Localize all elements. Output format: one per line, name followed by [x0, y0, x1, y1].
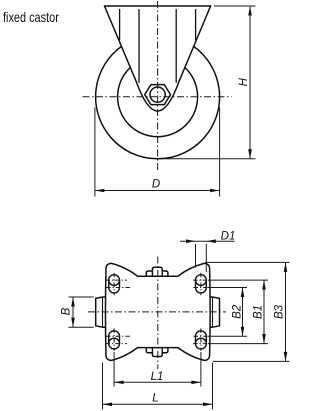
fork left slant: [105, 6, 136, 81]
hole TL horizontal crosshairs: [106, 280, 131, 287]
hole TR vertical crosshair: [200, 273, 202, 296]
wheel left shoulder: [102, 297, 104, 327]
axle circle: [150, 87, 165, 102]
B3 bottom extension line: [213, 360, 290, 362]
D1 right arrow (outside): [206, 239, 216, 243]
H top arrow: [248, 6, 252, 16]
B bottom extension line: [69, 326, 94, 328]
L1 dimension line: [114, 381, 201, 383]
svg-text:B2: B2: [232, 304, 244, 319]
H top extension line: [214, 5, 256, 7]
B3 bottom arrow: [284, 352, 288, 362]
B2 top arrow: [241, 288, 245, 298]
L right extension line: [212, 363, 214, 410]
H bottom extension line: [158, 158, 256, 160]
plan horizontal centerline: [88, 311, 226, 313]
D1 right extension line: [205, 244, 207, 272]
L left arrow: [103, 403, 113, 407]
svg-text:L: L: [152, 393, 158, 405]
L1 right arrow: [191, 381, 201, 385]
svg-text:H: H: [238, 77, 250, 86]
D right extension line: [219, 108, 221, 197]
axle hex nut: [145, 85, 171, 105]
svg-text:D1: D1: [221, 230, 236, 242]
svg-text:B3: B3: [273, 304, 285, 319]
B2 bottom extension line: [208, 335, 247, 337]
B1 bottom arrow: [262, 334, 266, 344]
B1 top extension line (from hole centers): [208, 279, 268, 281]
D1 left extension line: [195, 244, 197, 268]
side view vertical centerline: [157, 1, 159, 172]
hole BR vertical crosshair: [200, 328, 202, 351]
fork leg edge line 2: [138, 10, 140, 83]
wheel bottom line (plan): [103, 326, 213, 328]
bolt hole bottom-right slot: [196, 331, 207, 344]
L1 left extension line: [113, 352, 115, 387]
wheel right end face: [213, 297, 220, 327]
svg-text:B1: B1: [253, 305, 265, 319]
side view horizontal centerline: [83, 96, 232, 98]
bolt hole top-left slot: [109, 280, 120, 293]
wheel hub circle (arc): [118, 68, 198, 137]
plate edge line across bottom tab: [146, 347, 168, 349]
hole BL vertical crosshair: [113, 328, 115, 351]
B dimension line: [72, 297, 74, 327]
fork leg edge line 3: [175, 10, 177, 83]
hole TL vertical crosshair: [113, 273, 115, 296]
H bottom arrow: [248, 149, 252, 159]
plate tab inner lines top: [152, 271, 162, 276]
plate tab inner lines bottom: [152, 348, 162, 353]
D right arrow: [210, 189, 220, 193]
B2 dimension line: [242, 288, 244, 337]
D left extension line: [94, 108, 96, 197]
plate edge line across top tab: [146, 275, 168, 277]
B top arrow: [71, 297, 75, 307]
D dimension line: [95, 190, 220, 192]
bolt hole bottom-right circle: [196, 338, 207, 349]
fork yoke U-curve: [136, 81, 180, 112]
plate outline: [105, 263, 210, 360]
fork right slant: [179, 6, 210, 81]
fork leg edge line 4: [195, 10, 197, 40]
bolt hole top-right slot: [196, 280, 207, 293]
bolt hole bottom-left circle: [109, 338, 120, 349]
hole TR horizontal crosshairs: [193, 280, 209, 287]
top plate (side view): [105, 5, 211, 7]
H dimension line: [249, 6, 251, 159]
B1 bottom extension line: [208, 343, 268, 345]
B3 top extension line (plate overall): [205, 261, 290, 263]
wheel top line (plan): [103, 296, 213, 298]
plan vertical centerline: [157, 257, 159, 370]
B2 bottom arrow: [241, 327, 245, 337]
L right arrow: [203, 403, 213, 407]
bolt hole top-left circle: [109, 275, 120, 286]
title text "fixed castor": [3, 9, 59, 25]
wheel outer circle (arc, hidden behind fork at top): [96, 46, 220, 158]
L left extension line: [102, 363, 104, 410]
wheel right shoulder: [212, 297, 214, 327]
hole BR horizontal crosshairs: [193, 336, 209, 343]
bolt hole top-right circle: [196, 275, 207, 286]
B top extension line: [69, 296, 94, 298]
svg-text:B: B: [61, 307, 73, 315]
B3 top arrow: [284, 262, 288, 272]
B1 dimension line: [263, 280, 265, 344]
D1 left arrow (outside): [186, 239, 196, 243]
svg-text:D: D: [152, 179, 160, 191]
svg-text:L1: L1: [151, 371, 164, 383]
hole BL horizontal crosshairs: [106, 336, 131, 343]
B1 top arrow: [262, 280, 266, 290]
bolt hole bottom-left slot: [109, 331, 120, 344]
L1 right extension line: [200, 352, 202, 387]
B bottom arrow: [71, 318, 75, 328]
L dimension line: [103, 403, 213, 405]
fork leg edge line 1: [119, 10, 121, 40]
B2 top extension line (from right slot center): [208, 287, 247, 289]
wheel left end face: [96, 297, 103, 327]
B3 dimension line: [285, 262, 287, 361]
L1 left arrow: [114, 381, 124, 385]
D1 dimension line: [180, 240, 235, 242]
D left arrow: [95, 189, 105, 193]
